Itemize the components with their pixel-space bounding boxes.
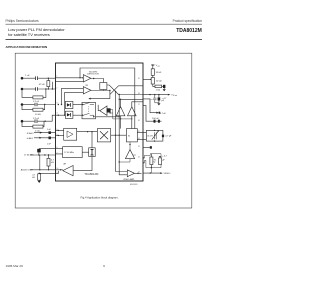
wire C2 to pin 2 xyxy=(38,88,55,90)
svg-text:AUDIO OUT: AUDIO OUT xyxy=(21,168,34,171)
wire MIX2 to C4 xyxy=(23,120,34,122)
svg-text:13: 13 xyxy=(138,146,140,148)
svg-text:Product specification: Product specification xyxy=(173,19,203,23)
resistor R4 1k horizontal xyxy=(33,125,43,128)
phase shifter block 90deg xyxy=(100,83,107,90)
capacitor C12 blob xyxy=(150,146,152,149)
mixer X2 box xyxy=(97,129,110,142)
svg-text:VIDEO: VIDEO xyxy=(164,173,171,175)
svg-text:5: 5 xyxy=(57,134,58,136)
switch block S1 xyxy=(82,102,96,118)
wire video out xyxy=(143,172,160,174)
resistor R9 1k horizontal xyxy=(155,85,162,88)
svg-text:1 nF: 1 nF xyxy=(25,75,30,77)
loop filter cap blob xyxy=(156,112,158,114)
wire to current source xyxy=(91,132,93,148)
capacitor C7 xyxy=(153,95,159,103)
capacitor C1 1nF xyxy=(36,76,38,80)
capacitor on agc row xyxy=(49,131,51,134)
wire agc row into pin 5 xyxy=(34,132,56,134)
wire down left branch xyxy=(39,155,41,170)
tank fixed cap blob xyxy=(162,135,164,138)
feedback top wire xyxy=(80,68,135,129)
svg-text:TDA8012M: TDA8012M xyxy=(84,172,99,176)
mixer M2 box xyxy=(65,111,73,118)
wire U1 out to phase shifter xyxy=(91,79,104,83)
svg-text:14: 14 xyxy=(138,138,140,140)
input terminal IF1 xyxy=(21,77,24,80)
resistor R6 4.7k vertical to ground xyxy=(38,174,41,180)
svg-text:17.64 MHz: 17.64 MHz xyxy=(24,155,34,157)
vertical bus 1 xyxy=(116,91,128,171)
svg-text:10 kΩ: 10 kΩ xyxy=(35,114,41,116)
svg-text:IF2: IF2 xyxy=(86,85,89,87)
wire IF2 to C2 xyxy=(23,88,35,90)
svg-text:1 kΩ: 1 kΩ xyxy=(35,131,40,133)
resistor R5 4.7k vertical xyxy=(48,155,50,158)
svg-text:11: 11 xyxy=(138,172,140,174)
svg-text:100 nF: 100 nF xyxy=(152,118,159,120)
op-amp U2 xyxy=(83,87,91,94)
svg-text:μF: μF xyxy=(162,160,165,162)
supply VCC symbol xyxy=(151,64,154,66)
wire deemphasis row pin xyxy=(39,172,55,174)
node at R1 top xyxy=(48,78,49,79)
svg-text:IF AGC: IF AGC xyxy=(27,132,34,135)
wire pins to afc amp xyxy=(56,130,64,135)
svg-text:1995 Mar 29: 1995 Mar 29 xyxy=(6,264,24,268)
nodes on reference wire xyxy=(38,154,39,155)
wire vco t2 to pin xyxy=(132,102,143,107)
wire pin3 to M1 xyxy=(58,104,59,105)
resistor R3 10k horizontal xyxy=(33,108,43,111)
svg-text:APPLICATION INFORMATION: APPLICATION INFORMATION xyxy=(6,45,48,49)
input terminal MIX1 xyxy=(21,103,24,106)
wire vco t1 to pin xyxy=(119,99,143,107)
svg-text:kΩ: kΩ xyxy=(51,162,54,164)
svg-text:kΩ: kΩ xyxy=(32,177,35,179)
svg-text:4.7 nF: 4.7 nF xyxy=(160,113,167,115)
mixer M1 box xyxy=(65,101,73,108)
input terminal MIX2 xyxy=(21,120,24,123)
svg-text:1 kΩ: 1 kΩ xyxy=(156,89,161,91)
svg-text:AF: AF xyxy=(64,162,67,165)
svg-text:VIDEO AMPL: VIDEO AMPL xyxy=(123,178,134,181)
svg-text:Philips Semiconductors: Philips Semiconductors xyxy=(6,19,40,23)
afc amp block xyxy=(64,128,77,140)
wire bias loop row2 xyxy=(22,89,46,97)
svg-text:Fig.4 Application block diagr: Fig.4 Application block diagram. xyxy=(81,196,119,200)
resistor R2 47k horizontal xyxy=(33,96,43,99)
node deemphasis xyxy=(39,173,40,174)
capacitor C10 blob xyxy=(154,120,156,123)
capacitor C11 blob xyxy=(158,120,160,123)
resistor R1 vertical xyxy=(47,78,49,80)
svg-text:19: 19 xyxy=(138,78,140,80)
svg-text:15: 15 xyxy=(138,131,140,133)
svg-text:Ω: Ω xyxy=(154,162,156,164)
vco tank loop xyxy=(143,132,146,139)
svg-text:MGD820: MGD820 xyxy=(130,184,138,186)
wire MIX1 to C3 xyxy=(23,104,34,106)
wire audio out row xyxy=(30,169,56,171)
node fo-adj xyxy=(39,137,41,139)
capacitor C3 2.2nF xyxy=(35,103,37,107)
svg-text:10: 10 xyxy=(57,168,59,170)
header rule 1 xyxy=(6,23,203,26)
header rule 2 xyxy=(6,38,203,41)
svg-text:1 nF: 1 nF xyxy=(47,129,52,131)
figure border box xyxy=(15,53,192,208)
demod out amp U4 xyxy=(63,166,73,176)
current source block xyxy=(89,148,96,157)
wire U2 input A xyxy=(62,87,84,89)
wire limiter input B xyxy=(56,81,84,83)
video amp U5 xyxy=(127,170,134,177)
svg-text:6: 6 xyxy=(57,129,58,131)
wire C1 to pin 1 xyxy=(38,77,55,79)
svg-text:for satellite TV receivers: for satellite TV receivers xyxy=(8,32,50,37)
vco buffer U3 left-pointing xyxy=(100,106,107,115)
wire limiter input A xyxy=(56,77,84,79)
svg-text:+ 4.7: + 4.7 xyxy=(162,156,168,158)
wire U3 to switch xyxy=(96,116,120,118)
wire U3 base to vco xyxy=(110,110,132,119)
svg-text:17.64 MHz: 17.64 MHz xyxy=(64,152,74,154)
wire C4 to jog up to pin 4 xyxy=(38,115,56,121)
wire U2 out down to switch xyxy=(91,90,110,92)
svg-text:12: 12 xyxy=(138,156,140,158)
svg-text:17: 17 xyxy=(138,104,140,106)
svg-text:osc: osc xyxy=(133,154,136,156)
wire vco bases down xyxy=(121,116,132,129)
wire pin 20 to divider node xyxy=(143,78,151,80)
wire bias loop row4 xyxy=(22,121,44,126)
reference osc block xyxy=(63,147,83,158)
wire fo-adj into pin 5 xyxy=(34,137,56,139)
svg-text:2.2 nF: 2.2 nF xyxy=(33,101,40,103)
crossover outputs to pins xyxy=(119,86,144,95)
wire R7 to R8 xyxy=(152,75,154,77)
divider block xyxy=(111,134,127,136)
svg-text:fo ADJ: fo ADJ xyxy=(27,137,33,140)
svg-text:33 kΩ: 33 kΩ xyxy=(156,72,162,74)
svg-text:47 kΩ: 47 kΩ xyxy=(39,84,45,86)
svg-text:2.2 nF: 2.2 nF xyxy=(33,118,40,120)
wire pin to loop filter xyxy=(143,99,156,113)
svg-text:7: 7 xyxy=(57,152,58,154)
wire U2 feed verticals xyxy=(62,88,65,115)
node row3 xyxy=(44,104,45,105)
svg-text:4: 4 xyxy=(57,113,58,115)
wire R1 bottom to row2 xyxy=(47,87,49,89)
wire video amp out xyxy=(135,172,142,174)
arrow IF out xyxy=(168,94,171,96)
svg-text:IF out: IF out xyxy=(173,94,178,97)
resistor R10 75 vertical xyxy=(150,157,153,165)
wire reference out xyxy=(82,151,89,153)
wire VCC to R7 xyxy=(152,66,154,69)
ground under C8 xyxy=(157,103,160,105)
IC box TDA8012M xyxy=(56,63,144,181)
wire osc connections xyxy=(119,142,130,162)
electrolytic C6 xyxy=(163,85,165,88)
svg-text:8: 8 xyxy=(57,147,58,149)
wire U2 input B xyxy=(65,91,84,93)
wire demod base xyxy=(73,157,92,171)
wire divider to tank pins xyxy=(137,132,143,139)
svg-text:1: 1 xyxy=(57,75,58,77)
op-amp U1 limiter xyxy=(83,75,91,82)
capacitor C4 2.2nF xyxy=(35,119,37,123)
svg-text:DETECTOR: DETECTOR xyxy=(87,74,99,76)
svg-text:2: 2 xyxy=(57,87,58,89)
svg-text:TDA8012M: TDA8012M xyxy=(176,28,202,34)
wire M1 out xyxy=(73,104,82,106)
input terminal IF2 xyxy=(21,88,24,91)
vertical bus 2 xyxy=(119,95,127,175)
wire bias loop row3 xyxy=(22,105,45,110)
wire pin decoupling caps xyxy=(143,106,162,122)
wire afc out xyxy=(77,131,98,133)
svg-text:4.7 pF: 4.7 pF xyxy=(165,136,172,138)
svg-text:16: 16 xyxy=(138,120,140,122)
electrolytic C8 xyxy=(158,97,161,100)
svg-text:45 nH: 45 nH xyxy=(147,136,153,138)
wire M2 out xyxy=(56,114,83,116)
RC network rails xyxy=(146,154,161,173)
resistor R8 10k vertical xyxy=(151,78,154,85)
wire C3 to pin 3 xyxy=(38,104,56,106)
svg-text:9: 9 xyxy=(103,264,105,268)
wire pins 11-12 to RC xyxy=(143,155,146,162)
wire pins to reference xyxy=(56,149,63,154)
wire R9 to C6 xyxy=(162,85,163,87)
wire reference bottom into pin 7 xyxy=(30,154,56,156)
ground under R6 xyxy=(38,179,40,182)
svg-text:10 kΩ: 10 kΩ xyxy=(156,81,162,83)
wire pin4 to M2 xyxy=(58,115,59,116)
svg-text:1 n: 1 n xyxy=(150,99,154,101)
svg-text:1 nF: 1 nF xyxy=(47,144,52,146)
crystal X1 17.64MHz xyxy=(39,148,56,150)
wire IF1 to C1 xyxy=(23,77,35,79)
svg-text:9: 9 xyxy=(57,172,58,174)
resistor R7 33k vertical xyxy=(151,69,154,76)
svg-text:CC: CC xyxy=(158,66,161,68)
arrow video out xyxy=(160,172,163,174)
ground under C6 xyxy=(163,88,165,89)
crossover X wires xyxy=(107,85,119,95)
node row2 junctions xyxy=(45,88,46,89)
wire pin 13 cap xyxy=(143,146,150,148)
svg-text:μF: μF xyxy=(162,100,165,102)
capacitor C2 1nF xyxy=(36,87,38,91)
wire IF out pin 18 xyxy=(143,94,168,96)
svg-text:Low power PLL FM demodulator: Low power PLL FM demodulator xyxy=(8,27,65,32)
vco transconductor T1 xyxy=(116,107,125,116)
wire demod pins xyxy=(56,170,63,174)
vco transconductor T2 xyxy=(128,107,137,116)
svg-text:3: 3 xyxy=(57,103,58,105)
pin labels xyxy=(57,75,140,173)
svg-text:f/2: f/2 xyxy=(128,135,130,137)
svg-text:18: 18 xyxy=(138,93,140,95)
wire R8 to R9 xyxy=(153,84,155,86)
nodes audio row xyxy=(39,169,40,170)
varicap in tank xyxy=(152,131,159,140)
electrolytic C13 xyxy=(159,158,162,165)
arrow agc row xyxy=(40,132,42,134)
osc triangle xyxy=(125,150,134,159)
